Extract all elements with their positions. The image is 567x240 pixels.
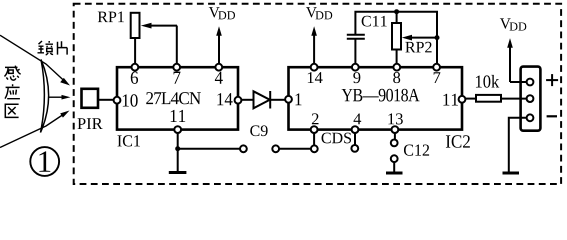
- circled number 1: [30, 147, 59, 176]
- pin 11: [459, 96, 466, 103]
- RP1 wiper arrow: [151, 25, 177, 27]
- VDD arrow above IC2 pin14: [311, 26, 317, 64]
- resistor 10k: [476, 95, 501, 102]
- label plus: [546, 74, 558, 86]
- CDS terminal left: [311, 145, 318, 152]
- label YB-9018A: [342, 89, 420, 102]
- pin 13: [392, 126, 399, 133]
- label C12: [404, 144, 429, 155]
- pin 8: [393, 64, 400, 71]
- pin 2: [311, 126, 318, 133]
- wire C9 right to pin2 terminal: [279, 148, 311, 150]
- lens arc (fresnel lens crescent): [41, 60, 49, 133]
- label VDD left: [209, 7, 220, 17]
- label RP1: [98, 12, 124, 23]
- pin 7: [173, 64, 180, 71]
- label IC2: [446, 135, 470, 148]
- ray middle: [49, 95, 71, 100]
- label IC1: [117, 135, 139, 146]
- C9 terminal right: [272, 145, 279, 152]
- pin 10: [114, 97, 121, 104]
- pin 7: [433, 64, 440, 71]
- junction node wiper to pin7 line: [435, 35, 440, 40]
- C12 terminal lower: [391, 155, 398, 162]
- pin 11: [174, 126, 181, 133]
- ground right: [503, 172, 520, 175]
- label 应 (response char) drawn as strokes: [5, 84, 20, 99]
- dashed border frame: [74, 4, 561, 184]
- ray lower: [0, 111, 70, 148]
- pin13 stub to C12 terminal: [394, 133, 396, 140]
- wire junction to C9 left terminal: [178, 148, 240, 150]
- C9 terminal left: [240, 145, 247, 152]
- pin 1: [285, 96, 292, 103]
- pin 9: [352, 64, 359, 71]
- CDS terminal right: [351, 145, 358, 152]
- VDD arrow right: [507, 38, 527, 82]
- ray upper (incoming IR ray): [0, 35, 70, 85]
- diode D1: [241, 91, 285, 109]
- ground under IC1: [169, 171, 187, 174]
- connector terminal middle: [527, 95, 534, 102]
- label VDD right: [500, 18, 511, 28]
- connector terminal bottom: [527, 114, 534, 121]
- label 区 (region char) drawn as strokes: [5, 104, 18, 117]
- label C11: [362, 16, 387, 27]
- IC1 pin11 wire down: [177, 133, 179, 172]
- ground under C12: [386, 172, 403, 175]
- pin2 stub to CDS terminal: [313, 133, 315, 146]
- junction node top of RP2: [394, 9, 399, 14]
- potentiometer RP1: [131, 13, 177, 64]
- capacitor C11: [347, 35, 365, 64]
- wire PIR to pin10: [98, 99, 114, 101]
- wire bottom terminal to ground: [509, 118, 527, 172]
- label PIR: [77, 118, 102, 129]
- label CDS: [322, 133, 351, 144]
- wire wiper to pin7: [176, 26, 178, 64]
- label 片 (second lens char) drawn as strokes: [58, 41, 68, 54]
- potentiometer RP2: [392, 12, 440, 64]
- label VDD middle: [306, 7, 317, 17]
- wire pin11 to resistor: [465, 98, 476, 100]
- wire resistor to connector: [501, 98, 527, 100]
- wire RP1 bottom to pin6: [134, 38, 136, 64]
- C12 terminal upper: [391, 140, 398, 147]
- pin 14 top: [311, 64, 318, 71]
- pin4 stub to CDS terminal: [354, 133, 356, 145]
- label 27L4CN: [146, 92, 201, 104]
- pin 6: [132, 64, 139, 71]
- IC1 box 27L4CN: [117, 67, 238, 129]
- top rail above IC2: [355, 12, 437, 64]
- connector terminal top: [527, 79, 534, 86]
- RP2 wiper arrow: [411, 37, 437, 39]
- label C9: [250, 125, 267, 136]
- wire C12 terminal to ground: [393, 162, 395, 172]
- label 感 (sense char) drawn as strokes: [5, 66, 21, 81]
- VDD arrow above IC1 pin4: [216, 26, 222, 64]
- pin 4: [215, 64, 222, 71]
- pin 4: [352, 126, 359, 133]
- junction node: [175, 146, 180, 151]
- label 镜 (mirror/lens char) drawn as strokes: [38, 41, 54, 55]
- label RP2: [405, 42, 431, 53]
- PIR sensor box: [82, 89, 99, 108]
- IC2 box YB-9018A: [289, 67, 463, 129]
- pin 14: [235, 97, 242, 104]
- wire VDD to connector top terminal: [510, 81, 527, 83]
- label minus: [547, 115, 557, 117]
- output connector block: [521, 67, 541, 131]
- label 10k: [476, 75, 499, 88]
